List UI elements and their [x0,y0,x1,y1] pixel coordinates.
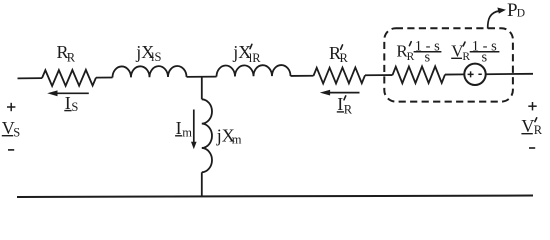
svg-text:R: R [534,123,543,137]
wire source to right terminal [486,73,533,75]
svg-text:s: s [424,49,430,65]
source polarity + (left inside circle) [468,73,474,75]
resistor R_R (stator resistance zigzag) [42,70,96,86]
svg-text:I: I [337,94,343,114]
svg-text:V: V [521,116,534,136]
arrow I_S (stator current, pointing left) [55,92,89,94]
wire R_R to jX_lS [96,77,113,79]
svg-text:R: R [344,102,353,116]
svg-text:D: D [517,8,525,20]
arrow to P_D (developed power, curved from box top) [488,11,500,29]
bottom rail wire [17,196,533,198]
arrow I_m (magnetizing current, pointing down) [193,110,195,144]
svg-text:I: I [65,93,71,113]
svg-text:m: m [232,133,242,147]
svg-text:R: R [462,51,470,63]
svg-text:R: R [340,51,349,65]
svg-text:lR: lR [249,51,261,65]
svg-text:I: I [176,118,182,138]
wire jX'_lR to R'_R [291,75,314,77]
svg-text:s: s [481,49,487,65]
left terminal - sign [8,149,14,151]
right terminal - sign [529,147,535,149]
source polarity - (right inside circle) [478,73,481,75]
wire node M down to jX_m [201,77,203,100]
source V'_R(1-s)/s (circle) [464,64,485,85]
wire left stub (top rail, from left terminal to R_R) [18,77,43,79]
inductor jX_m (magnetizing reactance vertical coil) [202,99,212,172]
dashed box (mechanical power equivalent / P_D region) [384,28,513,101]
resistor R'_R(1-s)/s (mechanical-power equivalent resistance) [393,66,446,83]
svg-text:R: R [407,51,415,63]
right terminal + sign [528,105,536,107]
wire jX_lS to node M (junction with magnetizing branch) [187,76,217,78]
inductor jX_lS (stator leakage reactance coil) [112,66,186,78]
svg-text:lS: lS [151,50,161,64]
arrow I'_R (rotor current, pointing left) [327,92,360,94]
resistor R'_R (rotor resistance zigzag) [314,67,366,83]
svg-text:m: m [182,125,192,139]
svg-text:R: R [67,50,76,64]
svg-text:S: S [71,100,78,114]
wire R'_R into dashed box [365,74,393,76]
left terminal + sign [7,106,15,108]
wire jX_m down to bottom rail [201,172,203,196]
wire resistor to source V'_R(1-s)/s [445,73,464,75]
svg-text:S: S [13,126,20,140]
inductor jX'_lR (rotor leakage reactance coil) [216,65,290,77]
